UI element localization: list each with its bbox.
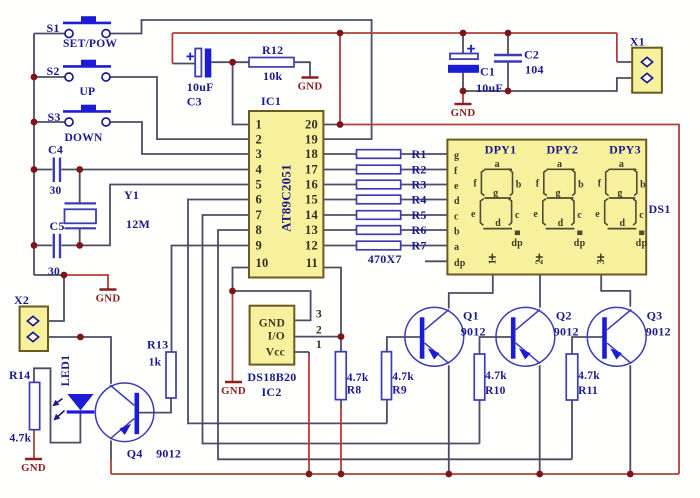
- svg-text:19: 19: [305, 132, 318, 146]
- svg-text:d: d: [619, 218, 625, 229]
- svg-text:GND: GND: [21, 462, 46, 474]
- svg-text:X1: X1: [630, 34, 645, 48]
- svg-text:8: 8: [256, 223, 263, 237]
- svg-text:C3: C3: [187, 95, 202, 109]
- svg-text:Q1: Q1: [463, 308, 479, 322]
- svg-text:a: a: [557, 159, 562, 170]
- svg-text:R9: R9: [392, 384, 407, 396]
- svg-text:10uF: 10uF: [476, 81, 503, 95]
- svg-text:e: e: [454, 181, 459, 192]
- svg-text:4.7k: 4.7k: [10, 433, 32, 445]
- svg-text:10: 10: [256, 256, 269, 270]
- svg-text:f: f: [598, 178, 602, 189]
- svg-text:g: g: [555, 188, 560, 199]
- svg-text:e: e: [595, 209, 600, 220]
- svg-text:GND: GND: [96, 293, 121, 305]
- svg-text:10uF: 10uF: [187, 80, 214, 94]
- svg-text:3: 3: [256, 147, 263, 161]
- svg-text:d: d: [495, 218, 501, 229]
- svg-text:DPY3: DPY3: [609, 143, 641, 157]
- svg-text:4.7k: 4.7k: [392, 371, 414, 383]
- svg-text:2: 2: [535, 259, 546, 265]
- svg-text:g: g: [617, 188, 622, 199]
- svg-text:C5: C5: [50, 219, 65, 233]
- svg-text:30: 30: [50, 185, 62, 197]
- svg-text:Y1: Y1: [124, 188, 139, 202]
- svg-text:R12: R12: [262, 43, 283, 57]
- svg-text:X2: X2: [14, 293, 29, 307]
- svg-text:15: 15: [305, 193, 318, 207]
- svg-text:9012: 9012: [156, 446, 181, 460]
- svg-text:10k: 10k: [263, 69, 283, 83]
- svg-text:dp: dp: [574, 238, 586, 249]
- svg-text:3: 3: [596, 259, 607, 265]
- svg-text:c: c: [639, 210, 644, 221]
- svg-text:DPY1: DPY1: [485, 143, 517, 157]
- svg-text:30: 30: [48, 266, 60, 278]
- svg-text:AT89C2051: AT89C2051: [279, 164, 294, 232]
- svg-text:9012: 9012: [646, 325, 671, 339]
- svg-text:6: 6: [256, 193, 263, 207]
- svg-text:R4: R4: [412, 193, 427, 207]
- svg-text:1k: 1k: [149, 357, 162, 369]
- svg-text:14: 14: [305, 208, 319, 222]
- svg-text:R1: R1: [412, 147, 427, 161]
- svg-text:a: a: [454, 242, 459, 253]
- svg-text:7: 7: [256, 208, 263, 222]
- svg-text:Q2: Q2: [556, 308, 572, 322]
- svg-text:R7: R7: [412, 239, 427, 253]
- svg-text:Vcc: Vcc: [266, 347, 285, 359]
- svg-text:R13: R13: [147, 338, 168, 352]
- svg-text:4: 4: [256, 163, 263, 177]
- svg-text:12M: 12M: [126, 217, 150, 231]
- svg-text:C4: C4: [48, 143, 63, 157]
- svg-text:d: d: [454, 196, 460, 207]
- svg-text:GND: GND: [451, 107, 476, 119]
- svg-text:1: 1: [488, 259, 499, 265]
- svg-text:b: b: [516, 179, 522, 190]
- svg-text:5: 5: [256, 178, 263, 192]
- svg-text:Q3: Q3: [647, 308, 663, 322]
- svg-text:104: 104: [525, 63, 544, 77]
- svg-text:470X7: 470X7: [368, 252, 402, 266]
- svg-text:a: a: [619, 159, 624, 170]
- svg-text:b: b: [578, 179, 584, 190]
- svg-text:R14: R14: [9, 368, 30, 382]
- svg-text:c: c: [577, 210, 582, 221]
- svg-text:R6: R6: [412, 223, 427, 237]
- svg-text:18: 18: [305, 147, 318, 161]
- svg-text:11: 11: [306, 256, 318, 270]
- svg-text:a: a: [495, 159, 500, 170]
- svg-text:R2: R2: [412, 163, 427, 177]
- svg-text:b: b: [640, 179, 646, 190]
- svg-text:4.7k: 4.7k: [578, 370, 600, 382]
- svg-text:GND: GND: [259, 318, 285, 330]
- svg-text:9012: 9012: [554, 325, 579, 339]
- svg-text:13: 13: [305, 223, 318, 237]
- svg-text:16: 16: [305, 178, 318, 192]
- svg-text:1: 1: [256, 118, 263, 132]
- svg-text:3: 3: [316, 309, 322, 321]
- svg-text:R8: R8: [347, 384, 362, 396]
- svg-text:f: f: [454, 166, 458, 177]
- svg-text:I/O: I/O: [268, 331, 285, 343]
- svg-text:b: b: [454, 227, 460, 238]
- svg-text:f: f: [536, 178, 540, 189]
- svg-text:S1: S1: [47, 21, 60, 35]
- svg-text:DS1: DS1: [649, 202, 671, 216]
- svg-text:c: c: [515, 210, 520, 221]
- svg-text:2: 2: [256, 132, 263, 146]
- svg-text:g: g: [454, 151, 459, 162]
- svg-text:DOWN: DOWN: [65, 132, 104, 144]
- svg-text:f: f: [473, 178, 477, 189]
- svg-text:GND: GND: [298, 81, 323, 93]
- svg-text:Q4: Q4: [127, 446, 143, 460]
- svg-text:17: 17: [305, 163, 318, 177]
- svg-text:C2: C2: [524, 48, 539, 62]
- svg-text:IC2: IC2: [262, 385, 282, 399]
- svg-text:12: 12: [305, 239, 318, 253]
- svg-text:R10: R10: [485, 385, 506, 397]
- svg-text:e: e: [533, 209, 538, 220]
- svg-text:DPY2: DPY2: [546, 143, 578, 157]
- svg-text:S3: S3: [48, 110, 61, 124]
- svg-text:9: 9: [256, 239, 263, 253]
- svg-text:UP: UP: [80, 86, 96, 98]
- svg-text:DS18B20: DS18B20: [247, 370, 296, 384]
- svg-text:20: 20: [305, 118, 318, 132]
- svg-text:1: 1: [316, 339, 322, 351]
- svg-text:R5: R5: [412, 208, 427, 222]
- svg-text:GND: GND: [221, 385, 246, 397]
- svg-text:IC1: IC1: [261, 94, 281, 108]
- svg-text:R11: R11: [578, 385, 598, 397]
- svg-text:d: d: [558, 218, 564, 229]
- svg-text:dp: dp: [454, 258, 466, 269]
- svg-text:C1: C1: [480, 65, 495, 79]
- svg-text:SET/POW: SET/POW: [63, 38, 117, 50]
- svg-text:2: 2: [316, 325, 322, 337]
- svg-text:g: g: [493, 188, 498, 199]
- svg-text:dp: dp: [636, 238, 648, 249]
- svg-text:LED1: LED1: [58, 355, 72, 387]
- svg-text:4.7k: 4.7k: [485, 370, 507, 382]
- svg-text:R3: R3: [412, 178, 427, 192]
- svg-text:9012: 9012: [461, 325, 486, 339]
- svg-text:c: c: [454, 212, 459, 223]
- svg-text:4.7k: 4.7k: [347, 372, 369, 384]
- svg-text:e: e: [471, 209, 476, 220]
- svg-text:S2: S2: [47, 64, 60, 78]
- svg-text:dp: dp: [511, 238, 523, 249]
